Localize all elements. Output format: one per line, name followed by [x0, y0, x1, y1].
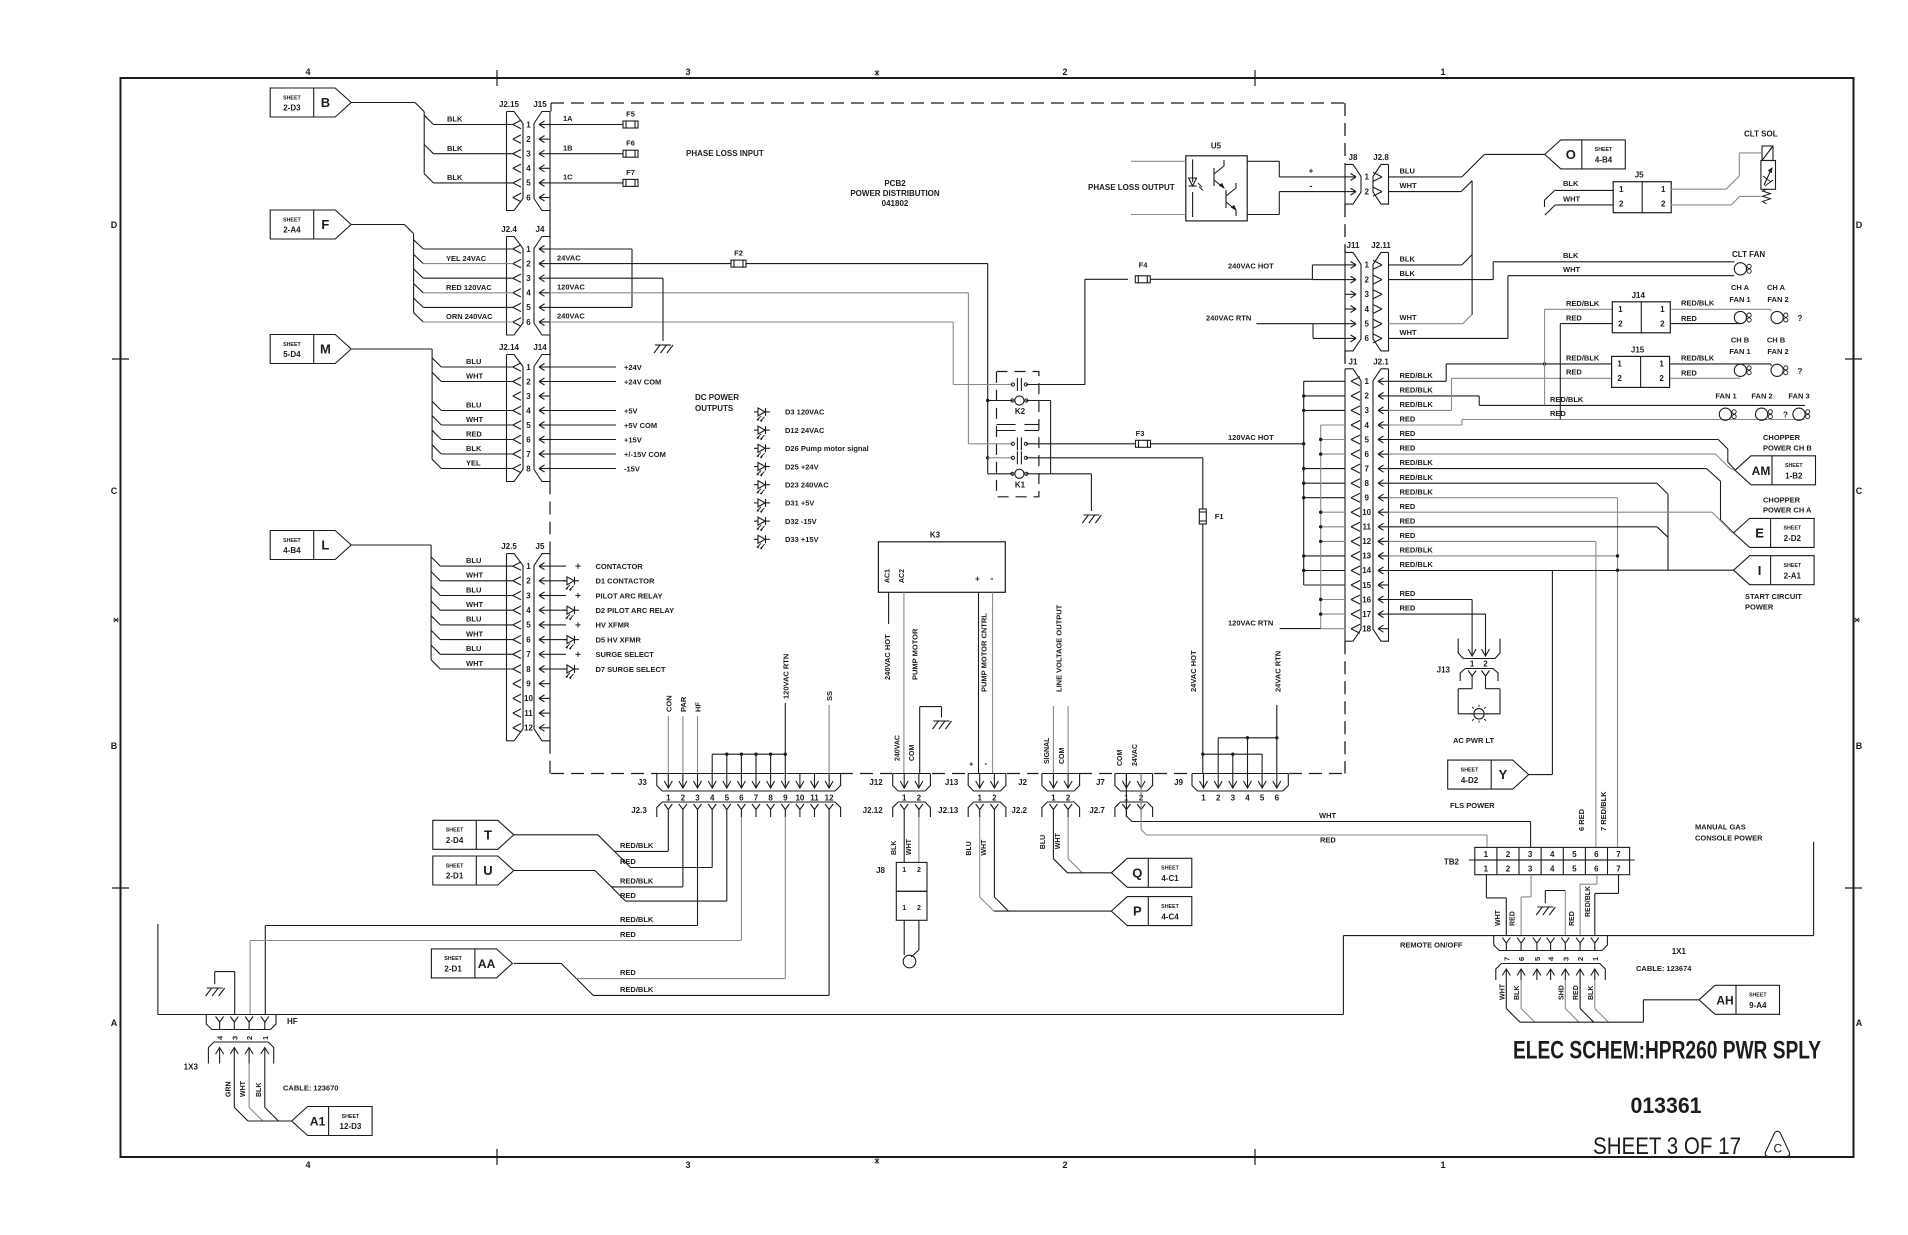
- CH B FAN 1: [1734, 364, 1746, 376]
- svg-text:CH A: CH A: [1731, 283, 1750, 292]
- svg-text:2: 2: [526, 135, 531, 144]
- svg-text:+5V COM: +5V COM: [624, 421, 657, 430]
- svg-text:3: 3: [1528, 865, 1533, 874]
- svg-text:11: 11: [524, 709, 533, 718]
- svg-text:240VAC HOT: 240VAC HOT: [1228, 262, 1274, 271]
- wire J2.1.2 to fan row top: [1389, 395, 1480, 397]
- svg-text:5: 5: [526, 303, 531, 312]
- svg-text:12: 12: [825, 794, 834, 803]
- svg-text:M: M: [320, 342, 331, 357]
- svg-text:LINE VOLTAGE OUTPUT: LINE VOLTAGE OUTPUT: [1055, 604, 1064, 692]
- svg-text:TB2: TB2: [1444, 858, 1460, 867]
- svg-text:RED/BLK: RED/BLK: [620, 877, 654, 886]
- svg-text:COM: COM: [909, 745, 916, 762]
- fuse F6 and wire 1B: [550, 153, 623, 155]
- sheet flag M (5-D4): [270, 335, 351, 364]
- relay contact K1a 120VAC: [968, 443, 1012, 445]
- svg-text:2-D4: 2-D4: [446, 836, 464, 845]
- sheet flag F (2-A4): [270, 210, 351, 239]
- connector J13/J2.13: [968, 774, 1006, 792]
- connector J8/J2.8: [1345, 164, 1361, 204]
- svg-text:2: 2: [1216, 794, 1221, 803]
- optocoupler U5: [1186, 156, 1247, 221]
- svg-text:D2 PILOT ARC RELAY: D2 PILOT ARC RELAY: [596, 606, 675, 615]
- sheet flag I (2-A1): [1734, 556, 1815, 585]
- svg-text:4: 4: [526, 406, 531, 415]
- svg-text:FAN 2: FAN 2: [1767, 347, 1788, 356]
- svg-text:2: 2: [245, 1036, 254, 1040]
- svg-text:WHT: WHT: [1319, 811, 1336, 820]
- svg-text:J4: J4: [536, 225, 545, 234]
- svg-text:5: 5: [1364, 320, 1369, 329]
- svg-text:120VAC: 120VAC: [557, 283, 585, 292]
- wire J2.1.7 to flag E: [1389, 468, 1707, 470]
- plug J14 (CH A fans): [1612, 302, 1670, 333]
- svg-text:2-D1: 2-D1: [446, 872, 464, 881]
- svg-text:2: 2: [526, 577, 531, 586]
- svg-text:8: 8: [768, 794, 773, 803]
- svg-text:BLK: BLK: [1563, 179, 1579, 188]
- svg-text:J5: J5: [1635, 171, 1644, 180]
- svg-text:3: 3: [230, 1036, 239, 1040]
- svg-text:240VAC HOT: 240VAC HOT: [883, 634, 892, 680]
- wire J2.1.3 to J15 plug pin2: [1389, 409, 1452, 411]
- svg-text:Y: Y: [1499, 767, 1508, 782]
- svg-text:SHEET: SHEET: [1783, 563, 1801, 569]
- svg-text:BLK: BLK: [891, 841, 898, 855]
- svg-text:OUTPUTS: OUTPUTS: [695, 404, 734, 413]
- svg-text:WHT: WHT: [466, 571, 483, 580]
- svg-text:+: +: [1309, 166, 1314, 175]
- svg-text:2: 2: [1062, 67, 1067, 77]
- svg-text:3: 3: [1231, 794, 1236, 803]
- svg-text:4-C4: 4-C4: [1161, 912, 1179, 921]
- svg-text:AM: AM: [1752, 464, 1771, 478]
- svg-text:C: C: [1773, 1142, 1782, 1156]
- bus 120VAC HOT to J1 odd group: [1303, 381, 1305, 585]
- sheet flag AH (9-A4): [1699, 985, 1780, 1014]
- svg-text:BLU: BLU: [466, 400, 481, 409]
- svg-text:FLS POWER: FLS POWER: [1450, 801, 1495, 810]
- svg-text:RED/BLK: RED/BLK: [1400, 560, 1434, 569]
- svg-text:4-D2: 4-D2: [1461, 776, 1479, 785]
- svg-text:POWER: POWER: [1745, 602, 1774, 611]
- svg-text:WHT: WHT: [1499, 983, 1506, 1000]
- svg-text:B: B: [111, 741, 118, 751]
- svg-text:7: 7: [1616, 865, 1621, 874]
- svg-text:BLK: BLK: [447, 115, 463, 124]
- wire SS into J3.12: [828, 705, 830, 774]
- svg-text:WHT: WHT: [466, 600, 483, 609]
- wires 24VAC HOT/RTN to J9: [1202, 458, 1204, 509]
- svg-text:WHT: WHT: [1400, 313, 1417, 322]
- svg-text:WHT: WHT: [1563, 265, 1580, 274]
- svg-text:SHEET: SHEET: [1161, 866, 1179, 872]
- svg-text:2: 2: [526, 259, 531, 268]
- wire T RED/BLK to J2.3.1: [514, 834, 598, 836]
- wire J2.1.1 to J15 plug pin1: [1389, 380, 1447, 382]
- indicator diodes D3-D33: [754, 411, 758, 413]
- svg-text:PHASE LOSS INPUT: PHASE LOSS INPUT: [686, 149, 764, 158]
- svg-text:240VAC: 240VAC: [557, 312, 585, 321]
- wire BLU J2.8.1 to flag O: [1389, 176, 1462, 178]
- svg-text:5: 5: [725, 794, 730, 803]
- svg-text:7: 7: [754, 794, 759, 803]
- svg-text:+5V: +5V: [624, 406, 638, 415]
- svg-text:CHOPPER: CHOPPER: [1763, 433, 1801, 442]
- svg-text:BLK: BLK: [1563, 251, 1579, 260]
- svg-text:WHT: WHT: [466, 371, 483, 380]
- svg-text:C: C: [111, 486, 118, 496]
- svg-text:J13: J13: [1437, 666, 1451, 675]
- svg-text:4-C1: 4-C1: [1161, 874, 1179, 883]
- svg-text:1: 1: [902, 794, 907, 803]
- svg-text:SIGNAL: SIGNAL: [1044, 737, 1051, 764]
- svg-text:4: 4: [526, 289, 531, 298]
- wire BLK J11.1 tie: [1389, 264, 1462, 266]
- long wire REMOTE ON/OFF path: [157, 924, 159, 1015]
- svg-text:A1: A1: [310, 1115, 326, 1129]
- wire U5 + output to J8.1: [1247, 160, 1279, 162]
- sheet flag Q (4-C1): [1111, 858, 1192, 887]
- J2 SIGNAL/COM stubs: [1052, 706, 1054, 774]
- svg-text:2: 2: [917, 794, 922, 803]
- svg-text:SHD: SHD: [1558, 985, 1565, 1000]
- wire RED/BLK HF1 to J2.3.3: [265, 925, 697, 927]
- ground to HF pin3: [214, 972, 216, 985]
- svg-text:041802: 041802: [882, 199, 909, 208]
- svg-text:RED: RED: [1550, 409, 1566, 418]
- svg-text:2: 2: [1660, 320, 1665, 329]
- svg-text:3: 3: [1364, 290, 1369, 299]
- svg-text:+24V COM: +24V COM: [624, 377, 661, 386]
- svg-text:D33 +15V: D33 +15V: [785, 535, 819, 544]
- svg-text:1: 1: [261, 1036, 270, 1040]
- svg-text:-15V: -15V: [624, 464, 640, 473]
- ground (J4.3): [655, 344, 671, 346]
- svg-text:2: 2: [917, 905, 921, 912]
- svg-text:2: 2: [681, 794, 686, 803]
- svg-text:5: 5: [526, 421, 531, 430]
- svg-text:8: 8: [526, 665, 531, 674]
- svg-text:1: 1: [1364, 377, 1369, 386]
- wire WHT J2.8.2 to J11 pins 1,5: [1389, 191, 1462, 193]
- svg-text:2: 2: [1062, 1160, 1067, 1170]
- svg-text:24VAC HOT: 24VAC HOT: [1189, 650, 1198, 692]
- svg-text:RED/BLK: RED/BLK: [1681, 353, 1715, 362]
- svg-text:GRN: GRN: [226, 1081, 233, 1097]
- svg-text:3: 3: [695, 794, 700, 803]
- svg-text:BLU: BLU: [466, 585, 481, 594]
- K3 AC1 stub 240VAC HOT: [888, 592, 890, 624]
- svg-text:BLK: BLK: [1514, 986, 1521, 1000]
- connector J9: [1192, 774, 1288, 792]
- svg-text:CABLE: 123670: CABLE: 123670: [283, 1084, 338, 1093]
- svg-text:RED/BLK: RED/BLK: [1400, 546, 1434, 555]
- svg-text:RED/BLK: RED/BLK: [620, 841, 654, 850]
- fuse F4 240VAC HOT: [1085, 278, 1128, 280]
- svg-text:CLT FAN: CLT FAN: [1732, 250, 1765, 259]
- svg-text:1: 1: [1661, 185, 1666, 194]
- svg-text:O: O: [1566, 147, 1576, 162]
- svg-text:9: 9: [1364, 494, 1369, 503]
- relay contact K2 240VAC: [953, 384, 1013, 386]
- connector J2.4/J4: [507, 237, 524, 336]
- svg-text:HF: HF: [694, 702, 703, 712]
- svg-text:RED/BLK: RED/BLK: [1400, 371, 1434, 380]
- svg-text:RED: RED: [1320, 835, 1336, 844]
- svg-text:1: 1: [1617, 360, 1622, 369]
- svg-text:2: 2: [526, 377, 531, 386]
- ground (console shield): [1537, 906, 1553, 908]
- svg-text:REMOTE ON/OFF: REMOTE ON/OFF: [1400, 941, 1463, 950]
- svg-text:RED/BLK: RED/BLK: [1550, 395, 1584, 404]
- sheet flag A1 (12-D3): [292, 1107, 373, 1136]
- wire T RED to J2.3.4: [631, 867, 713, 869]
- svg-text:SHEET: SHEET: [342, 1114, 360, 1120]
- svg-text:3: 3: [685, 67, 690, 77]
- wire bundle L to J2.5 pins 1-8: [352, 544, 432, 546]
- svg-text:POWER CH A: POWER CH A: [1763, 506, 1812, 515]
- connector J1/J2.1: [1345, 369, 1361, 641]
- svg-text:D5 HV XFMR: D5 HV XFMR: [596, 635, 642, 644]
- svg-text:U: U: [483, 863, 492, 878]
- svg-text:2: 2: [1483, 660, 1488, 669]
- svg-text:FAN 2: FAN 2: [1751, 391, 1772, 400]
- svg-text:J2.5: J2.5: [501, 542, 517, 551]
- svg-text:5: 5: [1572, 850, 1577, 859]
- svg-text:D12 24VAC: D12 24VAC: [785, 426, 825, 435]
- svg-text:2: 2: [1364, 275, 1369, 284]
- svg-text:SHEET: SHEET: [1783, 526, 1801, 532]
- svg-text:5: 5: [526, 179, 531, 188]
- svg-text:6: 6: [1517, 957, 1526, 961]
- svg-text:4: 4: [305, 1160, 310, 1170]
- svg-text:?: ?: [1798, 314, 1803, 323]
- svg-text:1-B2: 1-B2: [1785, 472, 1803, 481]
- svg-text:3: 3: [526, 591, 531, 600]
- svg-text:B: B: [1856, 741, 1863, 751]
- svg-text:FAN 1: FAN 1: [1729, 295, 1750, 304]
- svg-text:CH B: CH B: [1767, 336, 1786, 345]
- svg-text:RED: RED: [1566, 368, 1582, 377]
- svg-text:1: 1: [1440, 67, 1445, 77]
- svg-text:D25 +24V: D25 +24V: [785, 462, 819, 471]
- svg-text:BLK: BLK: [1400, 254, 1416, 263]
- connector J7/J2.7: [1115, 774, 1153, 792]
- svg-text:-: -: [1310, 181, 1313, 191]
- connector HF: [206, 1015, 276, 1030]
- svg-text:24VAC: 24VAC: [1132, 744, 1139, 766]
- svg-text:F2: F2: [734, 249, 743, 258]
- svg-text:A: A: [1856, 1018, 1863, 1028]
- svg-text:12-D3: 12-D3: [340, 1122, 362, 1131]
- svg-text:24VAC RTN: 24VAC RTN: [1273, 651, 1282, 692]
- svg-text:J2.7: J2.7: [1089, 806, 1105, 815]
- svg-text:2-D3: 2-D3: [283, 104, 301, 113]
- sheet flag AM (1-B2): [1735, 456, 1816, 485]
- svg-text:4: 4: [526, 164, 531, 173]
- svg-text:RED: RED: [620, 930, 636, 939]
- svg-text:120VAC RTN: 120VAC RTN: [781, 654, 790, 699]
- svg-text:WHT: WHT: [466, 629, 483, 638]
- svg-text:7: 7: [1364, 464, 1369, 473]
- svg-text:6 RED: 6 RED: [1577, 808, 1586, 831]
- svg-text:CHOPPER: CHOPPER: [1763, 495, 1801, 504]
- svg-text:J8: J8: [1349, 153, 1358, 162]
- svg-text:J14: J14: [1632, 291, 1646, 300]
- svg-text:PUMP MOTOR: PUMP MOTOR: [911, 628, 920, 680]
- svg-text:1: 1: [1364, 173, 1369, 182]
- svg-text:D3 120VAC: D3 120VAC: [785, 408, 825, 417]
- svg-text:4: 4: [305, 67, 310, 77]
- sheet flag O (4-B4): [1545, 140, 1626, 169]
- wire bundle F to J2.4 pins 1-6: [352, 224, 405, 226]
- svg-text:17: 17: [1362, 610, 1371, 619]
- revision triangle C: [1765, 1131, 1789, 1156]
- connector 1X3: [208, 1042, 273, 1064]
- connector J12/J2.12: [893, 774, 931, 792]
- svg-text:SHEET: SHEET: [444, 956, 462, 962]
- svg-text:D32 -15V: D32 -15V: [785, 517, 817, 526]
- svg-text:BLK: BLK: [447, 173, 463, 182]
- svg-text:J2.2: J2.2: [1011, 806, 1027, 815]
- svg-text:RED/BLK: RED/BLK: [1566, 299, 1600, 308]
- svg-text:3: 3: [1561, 957, 1570, 961]
- svg-text:BLU: BLU: [1040, 835, 1047, 849]
- svg-text:B: B: [321, 95, 330, 110]
- ground (K1 coil return): [1083, 514, 1099, 516]
- svg-text:HF: HF: [287, 1017, 298, 1026]
- wire J2.1.16 to J13 lamp conn: [1389, 599, 1473, 601]
- svg-text:9: 9: [526, 680, 531, 689]
- AC PWR LT lamp: [1471, 681, 1473, 689]
- J5 control rows CONTACTOR etc: [550, 565, 566, 567]
- svg-text:1: 1: [526, 120, 531, 129]
- wire J2.1.12 to TB2 col6: [1389, 540, 1596, 542]
- svg-text:START CIRCUIT: START CIRCUIT: [1745, 592, 1802, 601]
- wire K3 - to J13.2: [992, 592, 994, 773]
- svg-text:1: 1: [1201, 794, 1206, 803]
- relay K3: [878, 542, 1005, 593]
- svg-text:1: 1: [526, 562, 531, 571]
- svg-text:+15V: +15V: [624, 435, 642, 444]
- svg-text:BLK: BLK: [256, 1083, 263, 1097]
- svg-text:4: 4: [710, 794, 715, 803]
- svg-text:WHT: WHT: [1495, 909, 1502, 926]
- svg-text:PUMP MOTOR CNTRL: PUMP MOTOR CNTRL: [980, 613, 989, 692]
- svg-text:COM: COM: [1059, 748, 1066, 765]
- svg-text:D31 +5V: D31 +5V: [785, 499, 814, 508]
- svg-text:SHEET: SHEET: [283, 217, 301, 223]
- svg-text:J12: J12: [869, 778, 883, 787]
- relay block K2/K1 dashed box: [997, 372, 1039, 497]
- svg-text:RED: RED: [620, 857, 636, 866]
- svg-text:BLU: BLU: [466, 556, 481, 565]
- svg-text:MANUAL GAS: MANUAL GAS: [1695, 823, 1746, 832]
- svg-text:POWER CH B: POWER CH B: [1763, 443, 1812, 452]
- svg-text:3: 3: [526, 274, 531, 283]
- svg-text:RED: RED: [1400, 429, 1416, 438]
- svg-text:9-A4: 9-A4: [1749, 1001, 1767, 1010]
- svg-text:240VAC: 240VAC: [895, 735, 902, 761]
- svg-text:CONTACTOR: CONTACTOR: [596, 562, 644, 571]
- fuse F5 and wire 1A: [550, 124, 623, 126]
- svg-text:E: E: [1755, 526, 1764, 541]
- svg-text:D1 CONTACTOR: D1 CONTACTOR: [596, 577, 655, 586]
- svg-text:WHT: WHT: [466, 659, 483, 668]
- svg-text:2: 2: [1659, 374, 1664, 383]
- svg-text:4: 4: [1550, 850, 1555, 859]
- svg-text:1: 1: [1591, 957, 1600, 961]
- svg-text:1B: 1B: [563, 143, 573, 152]
- svg-text:120VAC HOT: 120VAC HOT: [1228, 433, 1274, 442]
- svg-text:J2.13: J2.13: [938, 806, 959, 815]
- wires J2.12 to plug J8: [903, 817, 905, 862]
- svg-text:PILOT ARC RELAY: PILOT ARC RELAY: [596, 591, 663, 600]
- svg-text:RED/BLK: RED/BLK: [1400, 386, 1434, 395]
- svg-text:F7: F7: [626, 168, 635, 177]
- svg-text:9: 9: [783, 794, 788, 803]
- svg-text:1: 1: [1051, 794, 1056, 803]
- svg-text:WHT: WHT: [1400, 328, 1417, 337]
- svg-text:5: 5: [1572, 865, 1577, 874]
- svg-text:RED/BLK: RED/BLK: [620, 985, 654, 994]
- relay coil K2: [988, 400, 1013, 402]
- svg-text:5: 5: [1533, 957, 1542, 961]
- svg-text:2-D2: 2-D2: [1784, 534, 1802, 543]
- sheet flag B (2-D3): [270, 88, 351, 117]
- svg-text:4: 4: [1550, 865, 1555, 874]
- svg-text:F: F: [321, 217, 329, 232]
- svg-text:PHASE LOSS OUTPUT: PHASE LOSS OUTPUT: [1088, 183, 1175, 192]
- svg-text:F6: F6: [626, 139, 635, 148]
- svg-text:6: 6: [526, 318, 531, 327]
- wire bundle B to J2.15 pins 1,3,5: [352, 102, 416, 104]
- wire J2.1.9 to TB2 col7: [1389, 497, 1618, 499]
- svg-text:1: 1: [1440, 1160, 1445, 1170]
- connector J2/J2.2: [1042, 774, 1080, 792]
- svg-text:RED: RED: [1510, 911, 1517, 926]
- wire Y to J2.1 area: [1529, 774, 1553, 776]
- svg-text:24VAC: 24VAC: [557, 253, 581, 262]
- svg-text:RED: RED: [1400, 589, 1416, 598]
- connector J2.5/J5: [507, 554, 524, 741]
- svg-text:COM: COM: [1117, 750, 1124, 767]
- svg-text:CH A: CH A: [1767, 283, 1786, 292]
- svg-text:F1: F1: [1215, 512, 1224, 521]
- svg-text:J5: J5: [536, 542, 545, 551]
- svg-text:BLU: BLU: [466, 615, 481, 624]
- svg-text:RED/BLK: RED/BLK: [1400, 400, 1434, 409]
- sheet flag L (4-B4): [270, 531, 351, 560]
- svg-text:SHEET: SHEET: [1461, 767, 1479, 773]
- svg-text:1X3: 1X3: [184, 1063, 199, 1072]
- svg-text:3: 3: [1364, 406, 1369, 415]
- svg-text:K2: K2: [1015, 407, 1026, 416]
- wire J2.1.17 to J13 lamp conn: [1389, 613, 1486, 615]
- svg-text:7 RED/BLK: 7 RED/BLK: [1599, 791, 1608, 831]
- svg-text:SHEET: SHEET: [1161, 904, 1179, 910]
- bus 120VAC RTN to J1 even group: [1320, 425, 1322, 629]
- svg-text:J11: J11: [1347, 241, 1360, 250]
- cable 123670 wires to A1: [233, 1064, 235, 1108]
- svg-text:4: 4: [1364, 421, 1369, 430]
- svg-text:6: 6: [1594, 850, 1599, 859]
- svg-text:6: 6: [1364, 450, 1369, 459]
- svg-text:RED: RED: [620, 891, 636, 900]
- svg-text:2: 2: [1364, 187, 1369, 196]
